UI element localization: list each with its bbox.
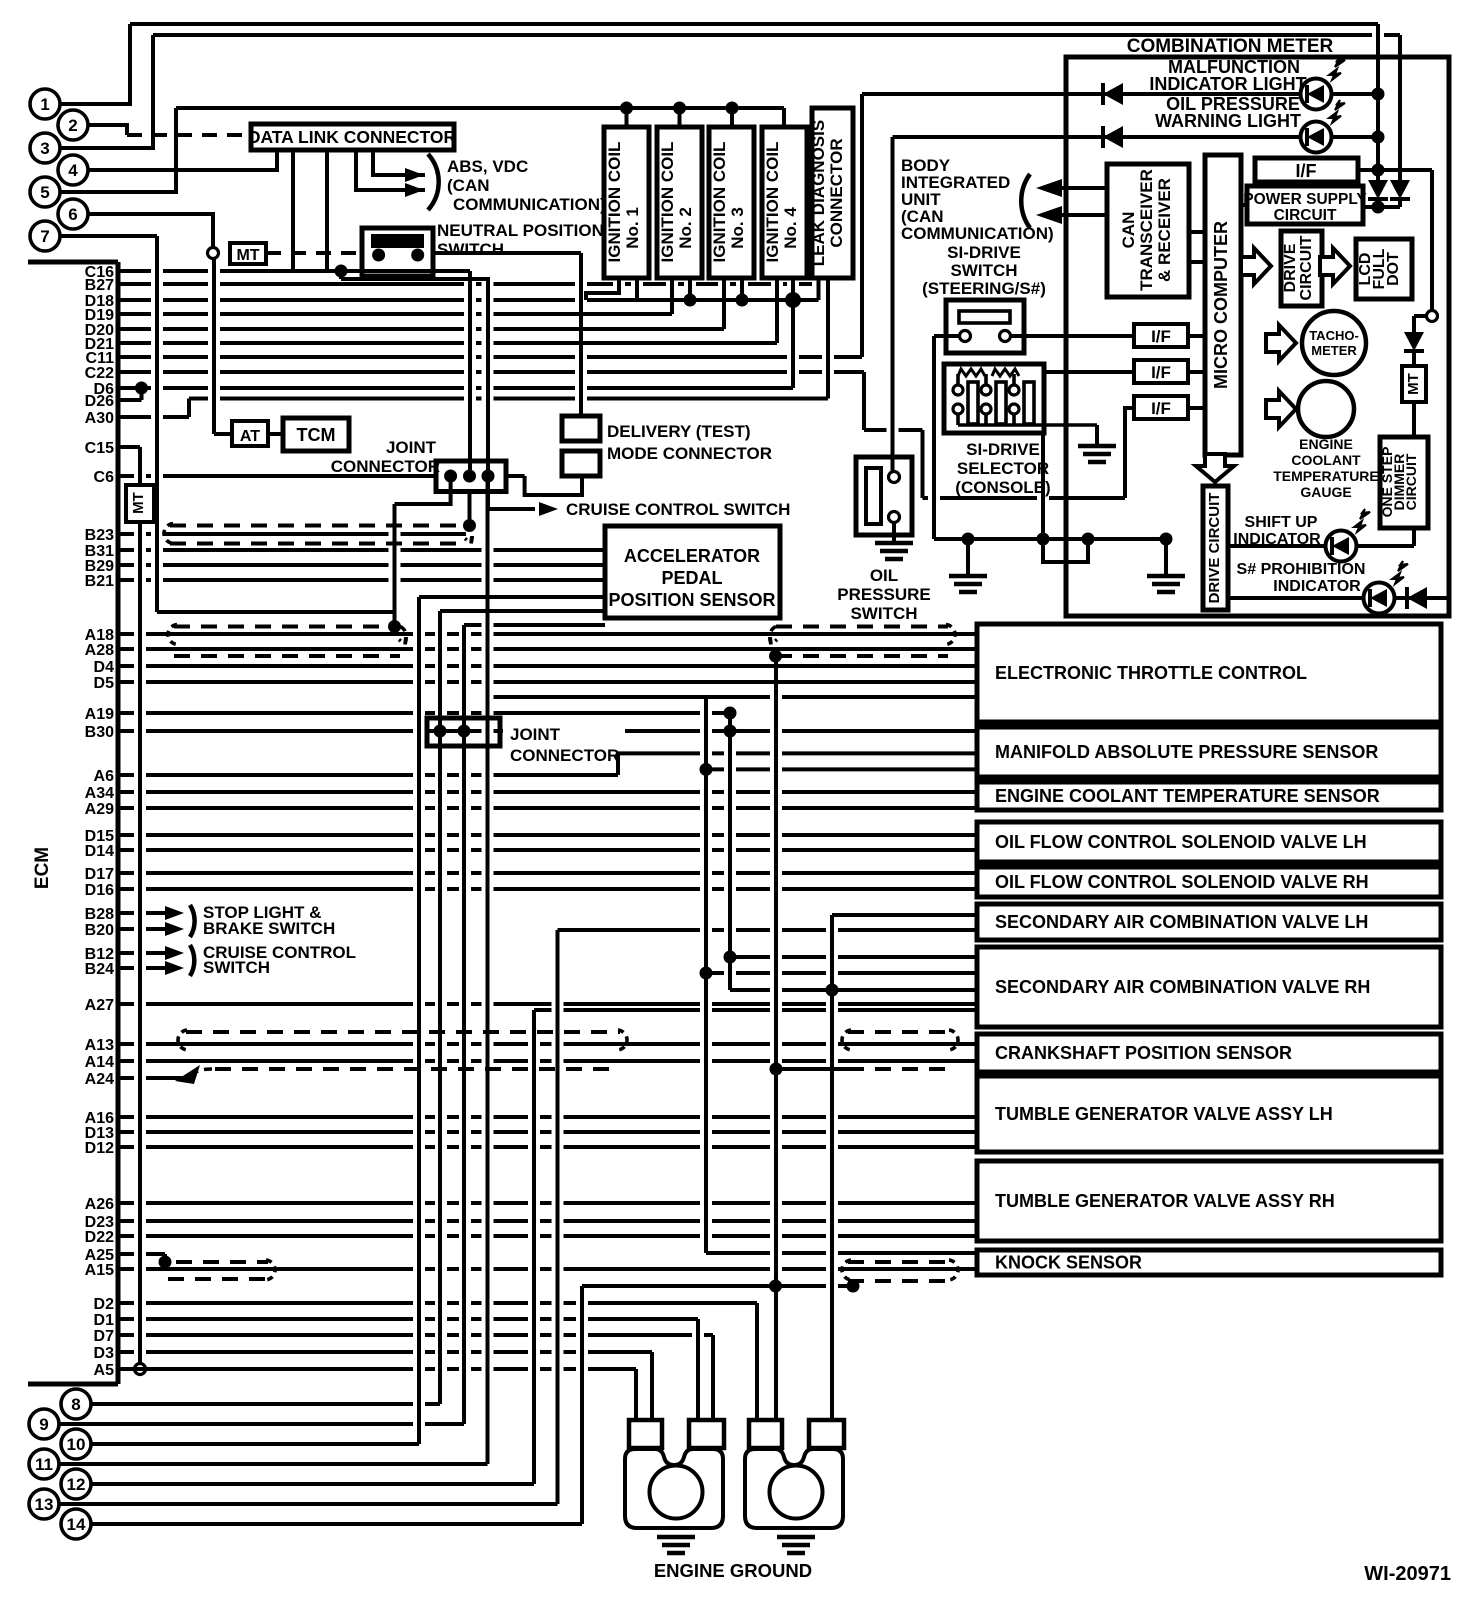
one step dimmer circuit [1380,437,1428,528]
wire circle11 [59,1462,488,1466]
wire row C22 [118,370,864,374]
wire MAP sensor 3rd [706,767,977,771]
wire row B30 [118,729,503,733]
wire row A6 [118,773,618,777]
wire dimmer feed riser [1430,170,1434,311]
wire row D19 [118,312,672,316]
svg-text:I/F: I/F [1151,327,1171,346]
wire circle1 riser [60,24,130,104]
svg-text:12: 12 [67,1475,86,1494]
wire circle7 [60,234,157,238]
wire row A34 [118,790,977,794]
svg-text:A29: A29 [85,801,114,818]
wire row B23 [118,532,466,536]
arrow micro to tachometer [1266,325,1296,361]
wire coil2 pin b [688,278,692,300]
wire C22 horizontal 2 [923,496,1126,500]
wire CAN b [1062,213,1107,217]
wire secondary air RH a [730,955,977,959]
LED oil pressure warning light [1301,100,1346,153]
wire circle2 [88,125,127,135]
wire row D14 [118,848,977,852]
svg-text:11: 11 [35,1455,53,1474]
wire top rail (circle1 to meter) [130,22,1378,26]
junction knock shield ground [847,1280,860,1293]
arrow stop light & brake switch a [165,906,184,920]
wire secondary air LH 1st [832,913,977,917]
svg-text:(CAN: (CAN [447,176,490,195]
junction MIL supply [1372,88,1385,101]
junction coil2-D18 [684,294,697,307]
svg-text:COOLANT: COOLANT [1291,452,1361,468]
svg-text:No. 1: No. 1 [623,207,642,249]
svg-text:SECONDARY AIR COMBINATION VALV: SECONDARY AIR COMBINATION VALVE RH [995,977,1370,997]
diode oil warning [1103,126,1123,148]
wire circle10 [91,1442,419,1446]
wire row D23 [118,1219,977,1223]
shield curve to A24 [190,1069,212,1076]
svg-text:A19: A19 [85,706,114,723]
bracket cruise control switch B12/B24 [190,945,194,976]
diode supply 2 [1390,180,1410,199]
wire secondary air LH 2nd [558,928,978,932]
svg-text:D14: D14 [85,843,114,860]
junction JC2 a [434,725,447,738]
wire row A30 stub [118,415,189,419]
wire coil4 pin b [791,278,795,300]
svg-text:I/F: I/F [1296,161,1317,181]
svg-text:SELECTOR: SELECTOR [957,459,1049,478]
svg-text:10: 10 [67,1435,86,1454]
svg-text:5: 5 [40,183,49,202]
wire C6 to delivery connector [525,476,582,495]
wire rail to ground 2 [966,539,970,574]
selector bar x1024 [1024,382,1034,424]
ground rail left [949,576,987,592]
ground oil pressure switch [875,543,913,559]
junction A19 trunk [724,707,737,720]
svg-text:A34: A34 [85,785,114,802]
wire diode to MT box [1412,351,1416,366]
wire joint connector to B23 shield [468,476,472,526]
svg-text:CRANKSHAFT POSITION SENSOR: CRANKSHAFT POSITION SENSOR [995,1043,1292,1063]
svg-text:BRAKE SWITCH: BRAKE SWITCH [203,919,335,938]
wire dimmer connector [1414,314,1427,318]
I/F box b [1134,360,1188,383]
svg-text:AT: AT [240,428,260,445]
wire D6 riser [791,300,795,388]
svg-text:CONNECTOR: CONNECTOR [331,457,440,476]
wire DLC pin to C16 [291,150,295,271]
wire C22 descent 2 [921,430,925,498]
svg-text:D3: D3 [94,1345,115,1362]
open circle dimmer connector [1427,311,1438,322]
connector circle 12 [61,1469,91,1499]
wire JC1c to cruise arrow [488,476,535,509]
wire selector pin to rail [1041,433,1045,539]
wire rail hop under meter border [1043,539,1088,562]
MT box dimmer [1402,366,1426,402]
joint connector 2 [427,718,500,746]
connector circle 9 [29,1409,59,1439]
ignition coil 3 [709,127,754,278]
svg-text:B30: B30 [85,724,114,741]
wire row D17 [118,871,977,875]
tumble generator valve assy LH [977,1076,1441,1152]
wire coil1 pin a [586,278,619,300]
svg-text:SI-DRIVE: SI-DRIVE [966,440,1040,459]
wire circle5 riser [60,108,176,192]
svg-text:LEAK DIAGNOSIS: LEAK DIAGNOSIS [809,120,828,266]
wire circle14 [91,1522,582,1526]
wire to AT [214,432,232,436]
arrow cruise control switch B12/B24 b [165,961,184,975]
wire C22 horizontal [864,428,923,432]
svg-text:WI-20971: WI-20971 [1364,1563,1451,1585]
ignition coil 4 [762,127,807,278]
svg-text:ENGINE: ENGINE [1299,436,1353,452]
svg-text:SECONDARY AIR COMBINATION VALV: SECONDARY AIR COMBINATION VALVE LH [995,912,1368,932]
junction JC2 b [458,725,471,738]
wire APP sensor 3 [464,623,605,627]
svg-text:D26: D26 [85,393,114,410]
selector resistor 1 [958,369,985,376]
svg-text:CONNECTOR: CONNECTOR [510,746,619,765]
svg-text:OIL FLOW CONTROL SOLENOID VALV: OIL FLOW CONTROL SOLENOID VALVE RH [995,872,1369,892]
SI-drive selector console [944,364,1044,433]
svg-text:D16: D16 [85,882,114,899]
MT box [230,243,266,264]
svg-text:ACCELERATOR: ACCELERATOR [624,546,760,566]
LED shift up indicator [1326,509,1371,562]
wire row A24 [118,1076,186,1080]
wire D3 to engine ground [650,1352,654,1420]
wire trunk x832 to engine ground [830,915,834,1420]
wire IF to dimmer feed [1378,168,1432,172]
selector contact bottom x1014 [1009,404,1019,414]
junction trunk sec air b [700,967,713,980]
connector circle 13 [29,1489,59,1519]
wire DLC to CAN arrow 1 [373,150,425,175]
wire meter supply 1 [1376,24,1380,182]
wire row D22 [118,1234,977,1238]
oil pressure switch [856,457,912,535]
svg-text:CONNECTOR: CONNECTOR [827,138,846,247]
junction crank shield ground [770,1063,783,1076]
svg-text:9: 9 [39,1415,48,1434]
wire row B27 [118,282,812,286]
wire row A15 [118,1267,977,1271]
combination meter box [1066,57,1449,616]
selector resistor 2 [992,369,1019,376]
svg-text:TRANSCEIVER: TRANSCEIVER [1137,169,1156,291]
junction A25 shield [159,1256,172,1269]
wire trunk x557 to circle13 [556,930,560,1504]
svg-text:NEUTRAL POSITION: NEUTRAL POSITION [437,221,604,240]
wire D6-D26 jumper [140,388,144,400]
wire IFa to micro [1188,334,1205,338]
wire row D15 [118,833,977,837]
wire coil3 pin b [740,278,744,300]
arrow micro to drive circuit 2 [1196,454,1234,482]
wire AT to TCM [268,432,283,436]
wire C15-MT riser to A5 [138,522,142,1363]
connector circle 14 [61,1509,91,1539]
wire SI switch to ground rail [932,336,936,539]
selector contact bottom x958 [953,404,963,414]
wire JC1c up-left [341,279,488,476]
svg-text:SWITCH: SWITCH [437,240,504,259]
junction IF supply [1372,164,1385,177]
svg-text:A28: A28 [85,642,114,659]
wire APP3 riser to circle9 [462,625,466,1424]
wire row A5 [118,1367,636,1371]
ground rail [934,537,1166,541]
junction D6 [135,382,148,395]
svg-text:ENGINE GROUND: ENGINE GROUND [654,1560,812,1581]
svg-text:POSITION SENSOR: POSITION SENSOR [608,590,775,610]
wire shield ground link [582,1284,853,1288]
wire CAN to micro a [1189,230,1205,234]
svg-text:A30: A30 [85,410,114,427]
wire JC1c riser down to circle11 [486,476,490,1464]
wire shift up [1228,544,1414,548]
junction rail c [1082,533,1095,546]
wire row D1 [118,1317,698,1321]
wire D2 to engine ground [755,1303,759,1420]
wire row A14 [118,1059,977,1063]
svg-text:ELECTRONIC THROTTLE CONTROL: ELECTRONIC THROTTLE CONTROL [995,663,1307,683]
LED malfunction indicator light [1301,57,1346,110]
svg-text:IGNITION COIL: IGNITION COIL [710,142,729,263]
svg-text:TACHO-: TACHO- [1309,328,1359,343]
svg-text:METER: METER [1311,343,1357,358]
wire selector to IF2 [1044,370,1134,374]
wire row A25 [118,1252,165,1256]
knock sensor [977,1250,1441,1275]
delivery test mode connector b [562,451,600,476]
svg-text:ENGINE COOLANT TEMPERATURE SEN: ENGINE COOLANT TEMPERATURE SENSOR [995,786,1380,806]
wire IF to junction [1358,168,1378,172]
wire row D2 [118,1301,757,1305]
connector circle 11 [29,1449,59,1479]
shield A13/A14 crankshaft left [186,1030,620,1034]
svg-text:No. 3: No. 3 [728,207,747,249]
secondary air combination valve LH [977,904,1441,940]
wire coil3 pin a [722,278,726,329]
svg-text:A6: A6 [94,768,115,785]
wire diode2 out [1398,199,1402,207]
I/F box top [1255,158,1358,182]
svg-text:D12: D12 [85,1140,114,1157]
arrow micro to coolant gauge [1266,391,1296,427]
wire APP1 riser to circle10 [417,597,421,1444]
wire NPS right [433,251,581,255]
svg-text:3: 3 [40,139,49,158]
wire to power supply circuit [1363,205,1400,209]
svg-text:CRUISE CONTROL SWITCH: CRUISE CONTROL SWITCH [566,500,790,519]
wire row D7 [118,1333,713,1337]
engine ground connector 2 [745,1420,844,1528]
junction oil warning supply [1372,131,1385,144]
NPS bar [371,234,424,248]
wire APP sensor 1 [419,595,605,599]
connector circle 4 [58,155,88,185]
svg-text:PEDAL: PEDAL [661,568,722,588]
selector contact top x1014 [1009,385,1019,395]
svg-text:CIRCUIT: CIRCUIT [1403,453,1419,510]
svg-text:MODE CONNECTOR: MODE CONNECTOR [607,444,772,463]
svg-text:MT: MT [1405,373,1422,395]
svg-text:1: 1 [40,95,49,114]
svg-text:A26: A26 [85,1196,114,1213]
junction B30 trunk [724,725,737,738]
wire row D4 [118,664,977,668]
svg-text:2: 2 [68,116,77,135]
MT box 2 [126,485,154,522]
svg-text:PRESSURE: PRESSURE [837,585,931,604]
neutral position switch [362,228,433,276]
wire coil2 top [678,108,682,127]
SI-drive switch slot [959,311,1010,323]
wire leak pin2 to A30 line [826,278,830,399]
svg-text:KNOCK SENSOR: KNOCK SENSOR [995,1253,1142,1273]
svg-text:4: 4 [68,161,78,180]
tachometer [1302,311,1366,375]
junction power supply [1372,201,1385,214]
wire selector to ground 1 [1095,425,1099,444]
svg-text:B23: B23 [85,527,114,544]
svg-text:MANIFOLD ABSOLUTE PRESSURE SEN: MANIFOLD ABSOLUTE PRESSURE SENSOR [995,742,1378,762]
open circle at A5 [135,1364,146,1375]
ECM [28,260,118,265]
connector circle 1 [30,89,60,119]
wire circle4 to DLC [88,150,277,170]
wire row D3 [118,1350,652,1354]
svg-text:DATA LINK CONNECTOR: DATA LINK CONNECTOR [248,127,457,147]
svg-text:A14: A14 [85,1054,114,1071]
wire JC1a down-left [395,476,451,504]
svg-text:OIL FLOW CONTROL SOLENOID VALV: OIL FLOW CONTROL SOLENOID VALVE LH [995,832,1367,852]
ignition coil 1 [604,127,649,278]
wire row D13 [118,1130,977,1134]
bracket ABS VDC [428,154,439,210]
junction coil3 feed [726,102,739,115]
svg-text:B20: B20 [85,922,114,939]
svg-text:A13: A13 [85,1037,114,1054]
svg-text:TUMBLE GENERATOR VALVE ASSY LH: TUMBLE GENERATOR VALVE ASSY LH [995,1104,1333,1124]
selector contact stubs [958,374,1014,425]
svg-text:CAN: CAN [1119,212,1138,249]
wire row B21 [118,578,605,582]
wire C16 branch stub [339,271,343,279]
junction JC1 b [463,470,476,483]
wire oil warning to oil pressure switch [891,137,895,472]
electronic throttle control [977,624,1441,722]
wire A5 to engine ground [634,1369,638,1420]
junction rail b [1037,533,1050,546]
junction JC1 c [482,470,495,483]
wire row A16 [118,1115,977,1119]
engine coolant temperature gauge [1298,381,1354,437]
wire trunk x730 [728,713,732,990]
wire row B29 [118,563,605,567]
leak diagnosis connector [812,108,853,278]
junction trunk sec air a [724,951,737,964]
wire C22 to IF3 [1125,408,1134,498]
svg-text:A27: A27 [85,997,114,1014]
svg-text:CIRCUIT: CIRCUIT [1274,207,1337,224]
wire row A18 [118,632,977,636]
ground engine 2 [777,1537,815,1553]
wire row A13 [118,1042,977,1046]
power supply circuit [1247,186,1363,224]
wire row B30 continued [625,729,977,733]
wire secondary air RH 2nd [534,1008,977,1012]
svg-text:COMMUNICATION): COMMUNICATION) [453,195,606,214]
selector contact bottom x986 [981,404,991,414]
wire dimmer to shift up LED [1412,528,1416,546]
svg-text:D2: D2 [94,1296,115,1313]
junction C16 branch [335,265,348,278]
wire row A28 [118,647,977,651]
connector circle 10 [61,1429,91,1459]
svg-text:TEMPERATURE: TEMPERATURE [1273,468,1379,484]
wire A25 to shield [163,1254,167,1262]
ignition coil supply rail [176,106,784,110]
diode MIL [1103,83,1123,105]
svg-text:S# PROHIBITION: S# PROHIBITION [1237,561,1366,578]
wire row D26 [118,398,142,402]
svg-text:TCM: TCM [297,425,336,445]
wire A30 to leak connector [189,397,828,401]
wire row D12 [118,1145,977,1149]
svg-text:B21: B21 [85,573,114,590]
svg-text:ECM: ECM [32,847,53,889]
junction coil4-D18-D6 [785,292,801,308]
connector circle 7 [30,221,60,251]
selector contact top x958 [953,385,963,395]
wire row A29 [118,806,977,810]
wire circle3 riser [60,35,153,148]
wire joint connector to shield [393,504,397,627]
wire C22 descent [862,372,866,430]
svg-text:DELIVERY (TEST): DELIVERY (TEST) [607,422,751,441]
arrow cruise control switch [539,502,558,516]
accelerator pedal position sensor [605,526,780,618]
svg-text:ABS, VDC: ABS, VDC [447,157,528,176]
open circle MT [208,248,219,259]
wire coil4 pin a [775,278,779,343]
svg-text:JOINT: JOINT [386,438,437,457]
I/F box c [1134,396,1188,419]
svg-text:D5: D5 [94,675,115,692]
wire trunk x534 to circle12 [532,1010,536,1484]
wire circle7 link [157,610,395,614]
wire row C6 [118,474,525,478]
wire MT point down to AT [212,258,216,434]
manifold absolute pressure sensor [977,727,1441,777]
svg-text:CIRCUIT: CIRCUIT [1298,235,1315,300]
oil flow control solenoid valve LH [977,822,1441,862]
wire D7 to engine ground [711,1335,715,1420]
svg-text:GAUGE: GAUGE [1300,484,1351,500]
engine ground connector 1 [625,1420,724,1528]
wire meter supply 2 [1398,35,1402,182]
svg-text:I/F: I/F [1151,363,1171,382]
junction coil1 feed [620,102,633,115]
diode supply 1 [1368,180,1388,199]
